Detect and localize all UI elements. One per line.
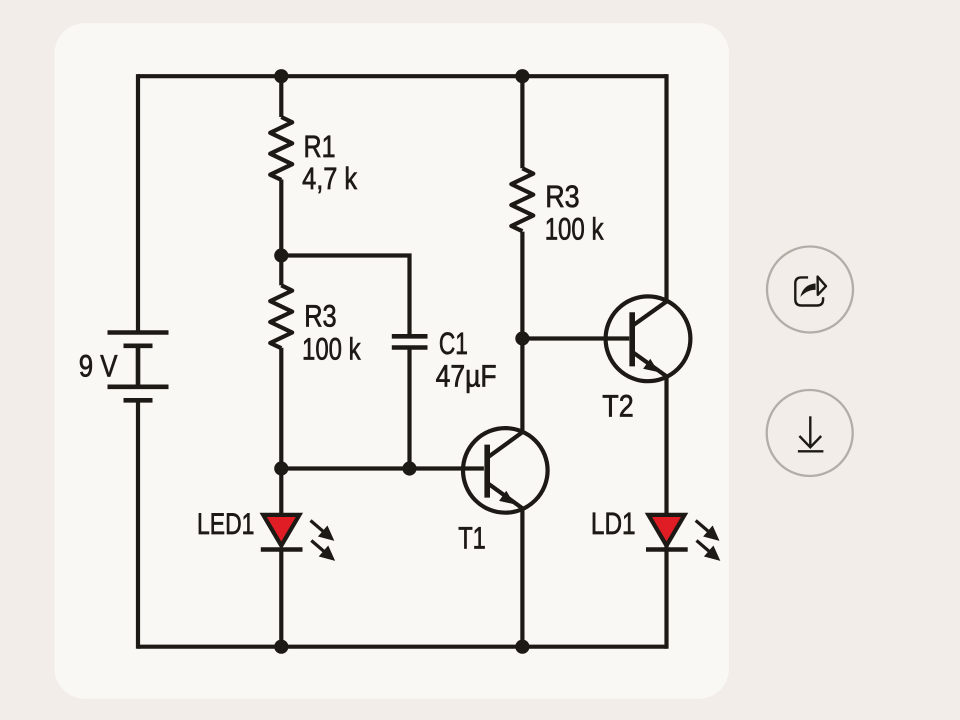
wire right rail upper — [664, 74, 668, 301]
resistor R1 zigzag — [270, 117, 292, 180]
svg-text:R3: R3 — [304, 299, 337, 334]
resistor R3 right zigzag — [511, 168, 533, 231]
wire node B2 to T2 base — [522, 336, 629, 340]
transistor T2 circle — [606, 296, 691, 381]
junction node B2 — [515, 331, 529, 345]
wire C1 to node A3 row — [407, 350, 411, 469]
transistor T1 base bar — [484, 445, 490, 498]
wire R3 to node B2 — [520, 232, 524, 339]
wire bottom rail — [138, 645, 667, 649]
junction node bottom-B — [515, 640, 529, 654]
wire T1 emitter to bottom rail — [520, 508, 524, 646]
wire R3 to node A3 — [279, 348, 283, 469]
transistor T1 emitter arrowhead — [499, 491, 514, 505]
battery B1 9V cell plates — [108, 333, 169, 401]
svg-text:LD1: LD1 — [591, 506, 636, 541]
LED1 diode triangle — [263, 515, 299, 546]
junction node C1 bottom — [402, 461, 416, 475]
svg-text:4,7 k: 4,7 k — [302, 161, 357, 196]
junction node top-B — [515, 69, 529, 83]
transistor T1 collector diagonal — [489, 432, 523, 457]
transistor T2 base bar — [629, 312, 635, 366]
junction node A3 — [274, 461, 288, 475]
junction node bottom-A — [274, 640, 288, 654]
svg-text:T1: T1 — [458, 520, 486, 555]
wire left rail upper — [136, 74, 140, 332]
transistor T2 emitter diagonal — [634, 353, 667, 377]
schematic card — [55, 23, 729, 698]
wire branch node A2 to C1 — [281, 256, 409, 335]
LD1 cathode bar — [646, 547, 688, 551]
wire top rail — [138, 74, 667, 78]
LED1 light arrow upper — [311, 521, 332, 539]
LED LD1 diode triangle — [648, 515, 684, 546]
wire node B2 to T1 collector — [520, 339, 524, 433]
wire node A3 to LED1 — [279, 469, 283, 514]
svg-text:LED1: LED1 — [197, 508, 254, 541]
capacitor C1 plates — [392, 336, 428, 347]
wire left rail lower — [136, 400, 140, 649]
transistor T1 emitter diagonal — [489, 484, 523, 509]
LED1 light arrow lower — [311, 541, 332, 559]
transistor T1 circle — [463, 428, 548, 513]
svg-text:100 k: 100 k — [302, 331, 361, 366]
LED1 cathode bar — [261, 547, 303, 551]
svg-text:R1: R1 — [304, 129, 336, 164]
wire column A top (rail to R1) — [279, 76, 283, 117]
share icon — [795, 277, 826, 306]
svg-text:100 k: 100 k — [545, 211, 604, 246]
wire node A2 to R3 — [279, 256, 283, 286]
LD1 light arrow upper — [696, 521, 717, 539]
resistor R3 left zigzag — [270, 285, 292, 348]
transistor T2 collector diagonal — [634, 302, 667, 326]
download button circle — [767, 390, 853, 476]
junction node A2 — [274, 248, 288, 262]
LD1 light arrow lower — [697, 541, 718, 559]
svg-text:T2: T2 — [602, 389, 633, 424]
svg-text:C1: C1 — [439, 326, 468, 361]
svg-text:9 V: 9 V — [79, 348, 118, 383]
wire R1 to node A2 — [279, 180, 283, 256]
wire column B top (rail to R3) — [520, 76, 524, 168]
share button circle — [767, 247, 853, 333]
svg-text:47µF: 47µF — [436, 359, 497, 394]
wire base row to T1 — [281, 466, 484, 470]
wire right rail lower — [664, 376, 668, 649]
junction node top-A — [274, 69, 288, 83]
transistor T2 emitter arrowhead — [643, 359, 658, 372]
svg-text:R3: R3 — [545, 179, 580, 214]
wire LED1 to bottom rail — [279, 550, 283, 647]
download icon — [798, 416, 824, 451]
